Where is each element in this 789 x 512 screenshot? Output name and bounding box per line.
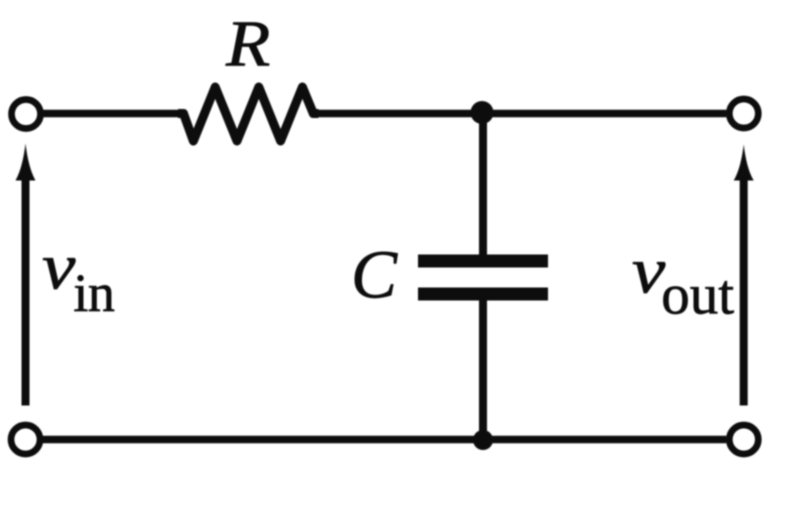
svg-text:C: C xyxy=(351,237,398,313)
node bottom junction dot xyxy=(473,430,493,450)
wire top-left (input to resistor) xyxy=(43,110,183,117)
capacitor C bottom plate xyxy=(418,288,548,301)
terminal top-right xyxy=(729,99,758,128)
capacitor C top plate xyxy=(418,255,548,268)
wire v_in arrow shaft xyxy=(22,179,30,406)
svg-text:R: R xyxy=(225,7,270,80)
node top junction dot xyxy=(471,101,494,124)
svg-text:out: out xyxy=(661,264,734,327)
terminal top-left xyxy=(12,100,41,129)
v_out arrowhead xyxy=(734,145,754,181)
wire top-right (resistor to output) xyxy=(313,110,726,117)
v_in arrowhead xyxy=(16,144,36,181)
terminal bottom-right xyxy=(729,425,758,454)
svg-text:v: v xyxy=(42,231,76,304)
wire capacitor top lead xyxy=(479,114,487,257)
svg-text:in: in xyxy=(73,263,115,323)
wire bottom rail xyxy=(43,436,726,443)
resistor R xyxy=(178,87,319,141)
wire v_out arrow shaft xyxy=(740,179,748,406)
terminal bottom-left xyxy=(11,425,40,454)
wire capacitor bottom lead xyxy=(479,294,487,440)
